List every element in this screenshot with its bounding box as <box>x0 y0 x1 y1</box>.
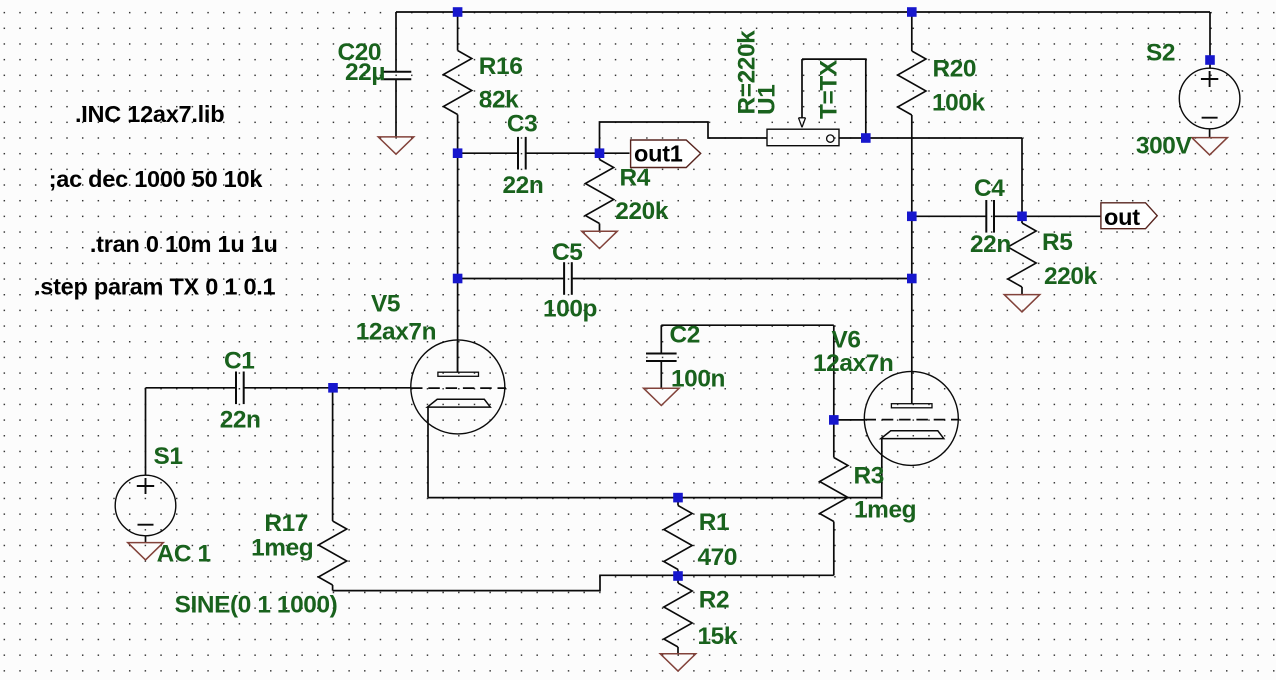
svg-text:.tran 0 10m 1u 1u: .tran 0 10m 1u 1u <box>90 231 278 257</box>
svg-text:R3: R3 <box>854 463 884 490</box>
svg-text:C1: C1 <box>224 348 254 375</box>
svg-text:SINE(0 1 1000): SINE(0 1 1000) <box>175 592 338 619</box>
svg-text:C4: C4 <box>974 175 1005 202</box>
svg-text:220k: 220k <box>1044 263 1098 290</box>
svg-text:C3: C3 <box>507 111 537 138</box>
svg-text:out1: out1 <box>634 141 683 167</box>
svg-text:;ac dec 1000 50 10k: ;ac dec 1000 50 10k <box>49 166 264 192</box>
svg-text:22n: 22n <box>220 407 261 434</box>
svg-text:12ax7n: 12ax7n <box>356 319 436 346</box>
svg-text:S2: S2 <box>1146 39 1175 66</box>
svg-text:1meg: 1meg <box>251 535 313 562</box>
svg-text:82k: 82k <box>479 87 519 114</box>
svg-text:100n: 100n <box>671 366 725 393</box>
svg-text:R16: R16 <box>479 53 523 80</box>
svg-text:R17: R17 <box>264 510 308 537</box>
svg-text:AC 1: AC 1 <box>157 541 211 568</box>
svg-text:1meg: 1meg <box>854 497 916 524</box>
svg-text:out: out <box>1104 204 1140 230</box>
svg-text:220k: 220k <box>615 198 669 225</box>
svg-text:R20: R20 <box>933 55 977 82</box>
svg-text:S1: S1 <box>154 443 183 470</box>
svg-text:R2: R2 <box>699 587 729 614</box>
svg-text:.step param TX 0 1 0.1: .step param TX 0 1 0.1 <box>34 274 276 300</box>
svg-text:300V: 300V <box>1136 133 1193 160</box>
svg-text:15k: 15k <box>698 623 738 650</box>
svg-text:22n: 22n <box>503 172 544 199</box>
svg-text:R1: R1 <box>699 509 729 536</box>
svg-text:100k: 100k <box>932 90 986 117</box>
svg-text:22µ: 22µ <box>345 59 385 86</box>
svg-text:V5: V5 <box>371 290 400 317</box>
svg-text:12ax7n: 12ax7n <box>813 350 893 377</box>
svg-text:.INC 12ax7.lib: .INC 12ax7.lib <box>75 101 224 127</box>
svg-text:R5: R5 <box>1042 229 1072 256</box>
svg-text:R4: R4 <box>620 164 651 191</box>
svg-text:T=TX: T=TX <box>816 59 843 119</box>
svg-text:100p: 100p <box>543 296 597 323</box>
svg-text:470: 470 <box>698 544 738 571</box>
svg-text:22n: 22n <box>970 231 1011 258</box>
svg-text:C5: C5 <box>552 239 582 266</box>
svg-text:C2: C2 <box>670 321 700 348</box>
svg-text:U1: U1 <box>754 85 781 115</box>
